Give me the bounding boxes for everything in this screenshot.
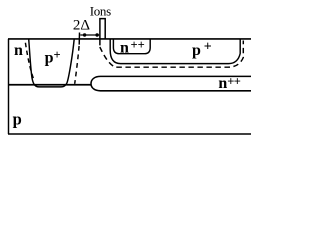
svg-text:2Δ: 2Δ [73,18,91,34]
svg-text:Ions: Ions [90,4,111,19]
svg-text:p: p [13,110,22,129]
wire bottom edge [8,133,251,135]
wire top surface line [8,38,251,40]
arrowhead dot left [83,33,86,36]
depletion dash around p+ implanted region [100,41,244,68]
depletion dash right of well [75,46,79,84]
svg-text:n: n [14,42,23,59]
dimension line 2-delta [80,34,99,36]
n++ buried layer capsule [91,76,251,90]
depletion line right of well solid upper part [78,33,80,45]
mask stripe [100,19,105,46]
wire epi-substrate interface [8,84,92,86]
wire left edge [8,39,10,134]
n++ emitter tub [113,39,150,54]
p+ isolation well outline [29,39,74,87]
arrowhead dot right [95,33,98,36]
p+ implanted region boundary [110,39,240,64]
depletion dash left of well [25,43,34,81]
